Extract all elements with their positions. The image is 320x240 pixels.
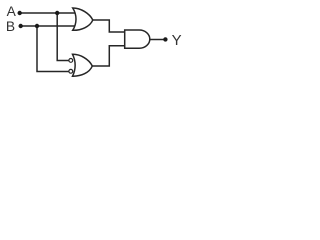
junction dot A at label (18, 11, 22, 15)
svg-text:A: A (7, 4, 17, 19)
wire U1 output to U3 top input (92, 20, 126, 32)
background (0, 0, 183, 80)
bubble U2 top input (69, 59, 73, 63)
svg-text:B: B (6, 19, 15, 34)
or-gate U1 (top OR) (73, 8, 93, 30)
junction dot Y output (163, 37, 167, 41)
wire U2 output to U3 bottom input (92, 46, 126, 66)
or-gate U2 (bottom OR, negated inputs) (73, 54, 93, 76)
wire B branch down to U2 bottom input (37, 26, 69, 72)
wire input B (20, 25, 76, 27)
bubble U2 bottom input (69, 69, 73, 73)
junction dot A branch (55, 11, 59, 15)
wire A branch down to U2 top input (57, 13, 69, 61)
wire input A (19, 12, 76, 14)
wire U3 output to Y (149, 39, 164, 41)
junction dot B branch (35, 24, 39, 28)
junction dot B at label (19, 24, 23, 28)
and-gate U3 (125, 30, 150, 48)
svg-text:Y: Y (172, 32, 182, 49)
